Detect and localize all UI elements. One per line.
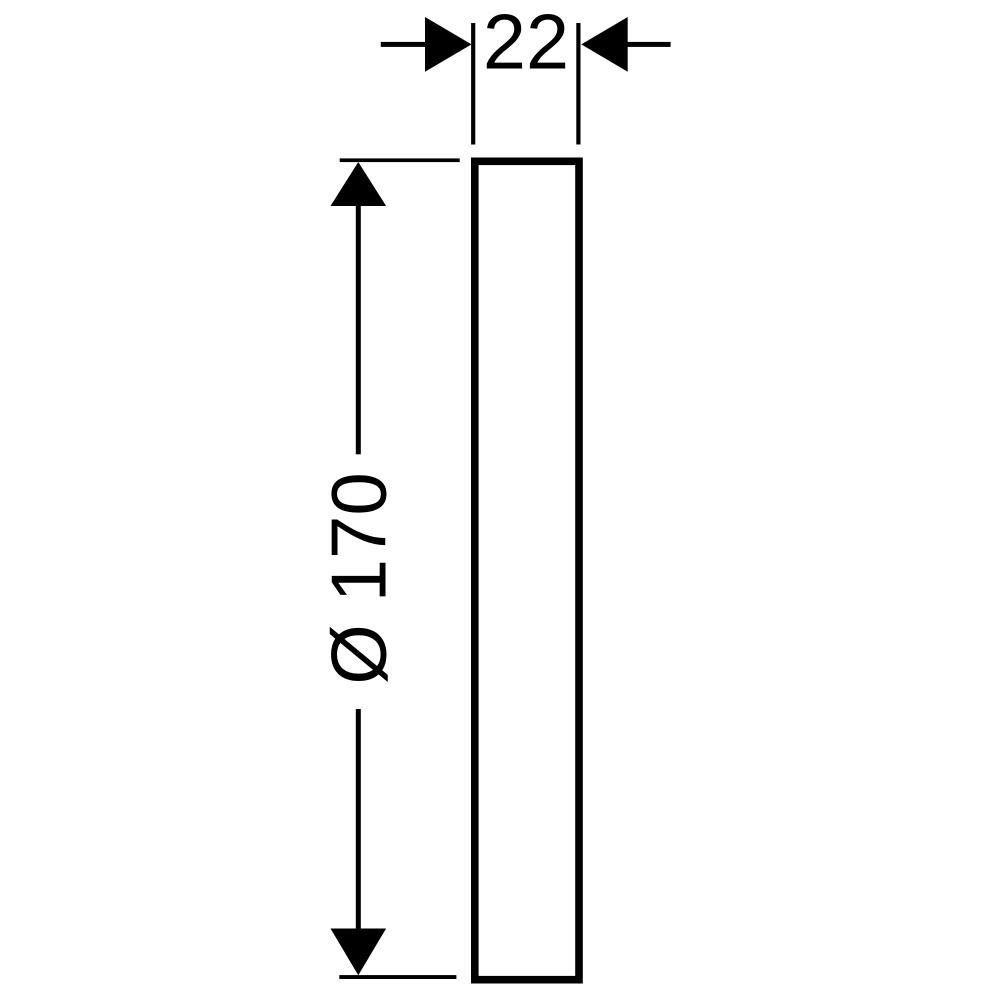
width dimension arrow left (points right)	[425, 17, 472, 72]
diameter dimension arrow up	[331, 162, 387, 206]
extension line top of diameter dimension	[340, 158, 460, 162]
diameter dimension arrow down	[331, 929, 387, 976]
extension line right of width dimension	[576, 23, 580, 145]
width dimension arrow right (points left)	[581, 17, 627, 72]
extension line left of width dimension	[471, 23, 475, 145]
extension line bottom of diameter dimension	[339, 975, 456, 979]
svg-text:Ø 170: Ø 170	[314, 472, 402, 684]
diameter dimension line lower segment	[356, 709, 361, 930]
plate outline (side profile rectangle)	[475, 161, 579, 979]
width dimension line left segment	[381, 42, 428, 47]
width dimension line right segment	[626, 42, 671, 47]
diameter dimension line upper segment	[356, 204, 361, 454]
svg-text:22: 22	[483, 0, 569, 86]
